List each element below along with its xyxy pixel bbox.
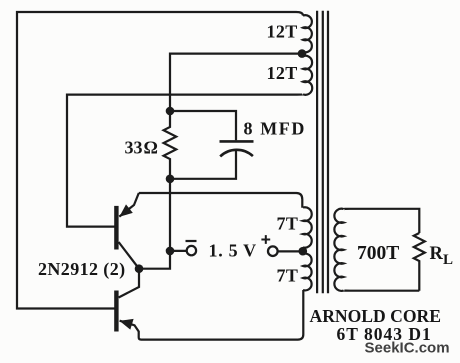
winding L4 7T bottom	[303, 254, 312, 291]
wire 12T center tap to 33 ohm top node	[170, 54, 302, 111]
wire RL bottom to 700T bottom terminal	[344, 289, 420, 292]
node dot 12T center tap	[298, 49, 307, 58]
winding L3 7T top	[303, 207, 312, 247]
capacitor C1 8 MFD bottom curved plate	[220, 150, 253, 157]
wire Q1 emitter to 7T top terminal	[139, 193, 302, 208]
svg-text:2N2912 (2): 2N2912 (2)	[38, 259, 126, 280]
svg-text:12T: 12T	[267, 22, 298, 42]
node B dot common collector junction	[135, 264, 144, 273]
battery minus sign	[186, 240, 197, 242]
battery plus sign	[261, 235, 270, 244]
battery minus terminal circle	[187, 246, 196, 255]
node dot 33 ohm top junction	[166, 107, 175, 116]
transformer T1 core line 3	[327, 11, 329, 294]
transformer T1 core line 1	[316, 11, 318, 294]
svg-text:Ω: Ω	[144, 138, 158, 158]
wire Q2 emitter to 7T bottom terminal	[120, 290, 304, 340]
wire node to capacitor top	[170, 111, 236, 140]
wire 33 ohm bottom node down to minus node A	[169, 179, 171, 251]
wire capacitor bottom to 33 ohm bottom node	[170, 151, 236, 179]
winding L5 700T secondary	[334, 209, 343, 291]
svg-text:ARNOLD CORE: ARNOLD CORE	[310, 306, 441, 326]
wire 12T bottom terminal to Q1 base	[67, 94, 303, 226]
transistor Q1 collector lead	[119, 242, 139, 269]
battery plus terminal circle	[268, 246, 278, 256]
node A dot battery minus junction	[166, 247, 175, 256]
transistor Q1 emitter arrow	[119, 204, 132, 216]
transistor Q2 base bar	[114, 291, 118, 332]
winding L2 12T bottom	[303, 56, 312, 95]
svg-text:700T: 700T	[357, 243, 399, 264]
wire node A to minus terminal	[170, 250, 187, 252]
transistor Q2 collector lead	[119, 269, 139, 298]
svg-text:SeekIC.com: SeekIC.com	[365, 339, 450, 356]
svg-text:R: R	[430, 244, 444, 264]
svg-text:L: L	[443, 252, 453, 268]
node dot 7T center tap	[299, 247, 308, 256]
transistor Q1 base bar	[114, 206, 118, 250]
svg-text:33: 33	[125, 138, 143, 158]
winding L1 12T top	[303, 15, 312, 52]
svg-text:12T: 12T	[267, 63, 298, 83]
wire node A to corner to node B	[139, 251, 170, 269]
resistor R1 33 ohm	[164, 111, 177, 179]
wire 700T top terminal to RL	[344, 209, 420, 233]
svg-text:7T: 7T	[277, 266, 299, 286]
transistor Q2 emitter arrow	[119, 319, 133, 330]
wire outer loop: top 12T winding top to Q2 base	[17, 12, 303, 309]
svg-text:1. 5 V: 1. 5 V	[209, 241, 257, 261]
transformer T1 core line 2	[322, 11, 324, 294]
transistor Q1 emitter lead	[119, 193, 139, 217]
svg-text:7T: 7T	[277, 214, 299, 234]
node dot 33 ohm bottom junction	[166, 175, 175, 184]
capacitor C1 8 MFD top plate	[220, 140, 254, 143]
wire plus terminal to 7T center tap	[278, 250, 303, 252]
svg-text:8 MFD: 8 MFD	[244, 119, 306, 139]
resistor RL load	[414, 233, 425, 291]
